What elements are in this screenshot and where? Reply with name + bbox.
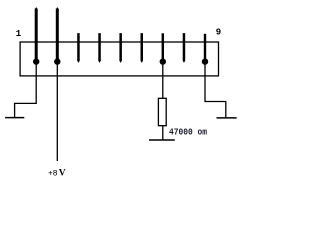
svg-text:47000 om: 47000 om: [169, 126, 207, 137]
svg-text:+8: +8: [48, 169, 58, 178]
svg-text:V: V: [59, 168, 66, 178]
svg-text:9: 9: [216, 27, 221, 37]
svg-text:1: 1: [16, 29, 22, 39]
